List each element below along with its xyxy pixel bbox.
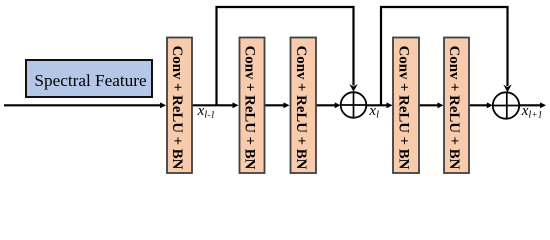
svg-text:Conv + ReLU + BN: Conv + ReLU + BN [169,46,185,170]
svg-text:Conv + ReLU + BN: Conv + ReLU + BN [293,46,309,170]
svg-text:Conv + ReLU + BN: Conv + ReLU + BN [242,46,258,170]
svg-text:Conv + ReLU + BN: Conv + ReLU + BN [396,46,412,170]
svg-text:Spectral Feature: Spectral Feature [34,71,147,90]
svg-text:Conv + ReLU + BN: Conv + ReLU + BN [446,46,462,170]
